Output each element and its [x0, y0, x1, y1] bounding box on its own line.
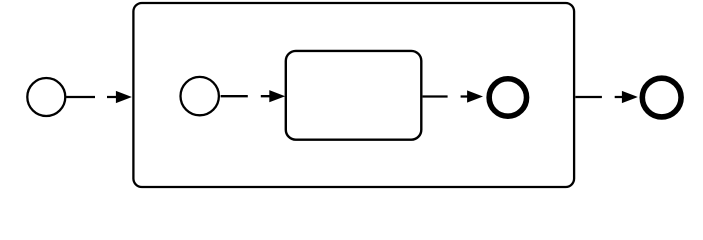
wire subprocess to end event (outer): [575, 96, 623, 98]
wire inner start to task: [221, 95, 270, 97]
task box: [286, 51, 422, 140]
end event (inner): [489, 79, 526, 116]
wire task to end event (inner): [423, 95, 468, 97]
arrowhead into end event (outer): [622, 91, 638, 103]
arrowhead into subprocess: [116, 91, 132, 103]
arrowhead into end event (inner): [467, 90, 483, 102]
subprocess container: [133, 3, 574, 187]
start event (inner): [181, 77, 219, 115]
start event (outer): [27, 78, 65, 116]
end event (outer): [642, 78, 681, 117]
wire start to subprocess: [66, 96, 116, 98]
arrowhead into task: [269, 90, 285, 102]
